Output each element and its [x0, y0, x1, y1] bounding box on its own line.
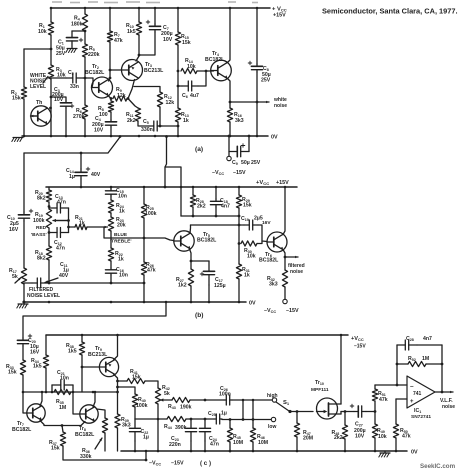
ground section c	[379, 453, 390, 457]
arrow R36 label	[95, 438, 102, 449]
junction	[138, 7, 141, 10]
resistor R18	[35, 246, 52, 262]
junction y400 b	[252, 399, 255, 402]
svg-text:15k: 15k	[243, 203, 252, 209]
wire -Vcc stub c	[145, 451, 147, 460]
svg-text:40V: 40V	[59, 273, 69, 279]
wire emitter to R8	[110, 99, 112, 102]
capacitor C21 bracket	[52, 385, 73, 392]
junction	[177, 135, 180, 138]
wire R17 bottom	[23, 284, 25, 302]
svg-text:R43: R43	[168, 404, 176, 410]
wire R31 top	[238, 244, 240, 265]
svg-text:BC182L: BC182L	[197, 238, 217, 244]
svg-text:5k: 5k	[12, 274, 18, 280]
wire R16 bottom	[229, 122, 231, 136]
resistor R4	[71, 14, 88, 31]
svg-text:IC1: IC1	[414, 408, 421, 414]
svg-text:47k: 47k	[379, 397, 388, 403]
junction rail 0V b	[110, 301, 113, 304]
wire R38 top	[81, 335, 83, 342]
wire R32 top	[284, 257, 286, 270]
junction C23 top	[190, 418, 193, 421]
junction rail 0V b	[208, 301, 211, 304]
node 0V section c	[411, 450, 418, 456]
svg-text:10M: 10M	[233, 440, 243, 446]
node emitters	[61, 424, 64, 427]
svg-text:noise: noise	[442, 404, 455, 410]
junction R29 y216	[238, 215, 241, 218]
node R9 right	[127, 97, 130, 100]
wire bus bottom	[177, 122, 179, 136]
svg-text:10n: 10n	[60, 376, 69, 382]
svg-text:125µ: 125µ	[214, 283, 226, 289]
transistor Tr8	[75, 405, 98, 438]
node filtered noise	[284, 256, 287, 259]
wire R2 bottom	[23, 99, 25, 136]
svg-text:+15V: +15V	[276, 180, 289, 186]
wire C3 jog	[51, 97, 66, 101]
junction C24 top	[204, 418, 207, 421]
node Tr5 emitter	[190, 260, 193, 263]
wire R4-R5 node	[84, 31, 86, 44]
svg-text:–15V: –15V	[354, 344, 366, 350]
wire R21 left	[69, 226, 76, 228]
wire R24-R23	[110, 213, 112, 217]
wire C19 to Tr6 base	[258, 225, 267, 242]
junction rail b	[80, 186, 83, 189]
wire R45 top	[229, 420, 231, 429]
junction Tr8 coll	[94, 391, 97, 394]
resistor R38	[66, 342, 85, 355]
wire C23 bottom	[190, 441, 192, 451]
wire -input	[375, 384, 407, 386]
wire R52 right	[426, 363, 442, 365]
resistor R48	[332, 425, 348, 441]
ground below C1	[66, 49, 77, 53]
resistor R5	[82, 44, 99, 58]
wire C14 bottom	[80, 179, 82, 187]
junction R47 top	[296, 410, 299, 413]
svg-text:LEVEL: LEVEL	[30, 84, 46, 90]
svg-text:16V: 16V	[30, 350, 40, 356]
svg-text:1k5: 1k5	[33, 364, 42, 370]
wire R30 right	[257, 241, 262, 244]
transistor Tr7	[12, 404, 45, 433]
junction rail bottom c	[344, 450, 347, 453]
wire 0V rail section b	[23, 301, 246, 303]
wire Tr10 drain	[340, 335, 342, 404]
wire Tr10 source	[340, 412, 342, 415]
svg-text:100: 100	[99, 112, 108, 118]
svg-text:10M: 10M	[258, 440, 268, 446]
junction rail c	[340, 334, 343, 337]
resistor R13	[175, 108, 188, 124]
wire y419	[135, 418, 167, 420]
wire C1 lead	[72, 30, 85, 32]
label (a)	[195, 146, 203, 153]
svg-text:220k: 220k	[88, 52, 100, 58]
junction -Vcc stub	[228, 135, 231, 138]
watermark SeekIC.com	[420, 463, 456, 470]
wire Tr6 emitter	[283, 250, 285, 258]
wire R37 top	[62, 426, 63, 433]
wire C11 to right	[46, 282, 143, 284]
capacitor C15	[105, 188, 127, 200]
node C5 bus	[177, 125, 180, 128]
resistor R14	[181, 58, 197, 74]
node source	[344, 410, 347, 413]
wire C7 top	[154, 8, 156, 24]
svg-text:BC182L: BC182L	[205, 57, 225, 63]
wire R29 top	[238, 187, 240, 195]
svg-text:10n: 10n	[118, 194, 127, 200]
wire C16 bottom	[110, 275, 112, 283]
wire R27 top	[190, 261, 192, 269]
wire Tr5 collector to C19	[191, 224, 245, 226]
junction	[50, 135, 53, 138]
resistor R32	[267, 270, 288, 288]
label high	[267, 393, 278, 399]
wire emitter to C17	[191, 260, 209, 262]
svg-text:–15V: –15V	[171, 461, 184, 467]
junction y392	[72, 391, 75, 394]
wire R1 bottom to node	[50, 35, 52, 65]
wire C18 bottom	[215, 207, 217, 216]
node R12 bottom	[159, 125, 162, 128]
junction rail bottom c	[204, 450, 207, 453]
junction rail b	[180, 186, 183, 189]
wire R38 bottom	[81, 355, 83, 392]
wire node to left trunk	[24, 48, 51, 50]
wire C14 top tap	[80, 153, 82, 169]
svg-text:25V: 25V	[251, 160, 261, 166]
resistor R25	[141, 204, 156, 218]
wire R49 top	[374, 412, 376, 425]
capacitor C16	[105, 267, 128, 279]
wire R1 top	[50, 8, 52, 22]
capacitor C26	[219, 386, 232, 405]
svg-text:1µ: 1µ	[69, 174, 75, 180]
junction rail bottom c	[190, 450, 193, 453]
capacitor C5	[141, 119, 162, 133]
junction	[177, 7, 180, 10]
resistor R31	[236, 264, 249, 279]
svg-text:190k: 190k	[180, 405, 192, 411]
wire R50 bottom	[395, 438, 397, 451]
wire C17 bottom	[208, 285, 210, 302]
capacitor C17	[200, 261, 225, 289]
wire C3 bottom	[65, 108, 67, 136]
svg-text:SN72741: SN72741	[411, 414, 431, 420]
junction	[229, 7, 232, 10]
svg-text:10k: 10k	[378, 434, 387, 440]
resistor R40	[132, 394, 147, 409]
svg-text:C5: C5	[143, 119, 149, 125]
svg-text:100n: 100n	[219, 392, 231, 398]
node C6 left	[177, 85, 180, 88]
label filtered noise	[288, 263, 305, 275]
junction C19 left	[238, 224, 241, 227]
svg-text:(a): (a)	[195, 146, 203, 153]
svg-text:2k2: 2k2	[197, 204, 206, 210]
svg-text:47n: 47n	[210, 442, 219, 448]
junction rail bottom c	[157, 450, 160, 453]
node C26 left	[204, 399, 207, 402]
junction	[229, 135, 232, 138]
wire Tr9 collector down	[114, 374, 118, 381]
wire 0V rail section a	[22, 135, 268, 137]
capacitor C13	[49, 194, 69, 213]
resistor R24	[108, 200, 124, 215]
junction rail b	[238, 186, 241, 189]
node Tr3 base tap	[109, 69, 112, 72]
svg-text:(b): (b)	[195, 312, 203, 319]
resistor R21	[75, 215, 87, 230]
resistor R9	[113, 87, 127, 101]
junction rail c	[81, 334, 84, 337]
resistor R28	[190, 195, 205, 210]
pot wiper arrow R42	[160, 398, 172, 401]
capacitor C25	[208, 411, 227, 425]
junction y419 r46	[252, 418, 255, 421]
svg-text:15k: 15k	[51, 446, 60, 452]
junction rail b	[143, 186, 146, 189]
resistor R44	[164, 416, 187, 431]
junction R28 y216	[192, 215, 195, 218]
svg-text:12k: 12k	[166, 100, 175, 106]
wire R50 top	[395, 399, 397, 424]
wire Tr9 emitter up	[114, 335, 118, 360]
junction C18 y216	[215, 215, 218, 218]
svg-text:low: low	[268, 424, 276, 430]
wire R36 bottom	[104, 433, 106, 451]
junction R30 left	[238, 242, 241, 245]
node R1-R3	[50, 48, 53, 51]
wire R12 top	[134, 87, 160, 93]
svg-text:BC182L: BC182L	[75, 432, 95, 438]
junction rail bottom c	[296, 450, 299, 453]
resistor R30	[241, 241, 257, 260]
node white noise tap	[229, 101, 232, 104]
node C8-whitenoise cross	[256, 101, 259, 104]
svg-text:Tr10: Tr10	[315, 380, 324, 386]
resistor R23 treble pot	[108, 217, 125, 231]
svg-text:180k: 180k	[71, 22, 83, 28]
junction y392	[92, 391, 95, 394]
wire R51 top	[374, 385, 376, 389]
wire Tr7 collector	[40, 392, 42, 406]
junction y392	[22, 391, 25, 394]
svg-text:C19: C19	[241, 216, 249, 222]
wire C11 line	[24, 282, 32, 284]
svg-text:BC182L: BC182L	[85, 70, 105, 76]
svg-text:1k2: 1k2	[178, 283, 187, 289]
capacitor C22	[129, 419, 148, 441]
svg-text:20M: 20M	[303, 436, 313, 442]
junction Tr7 coll	[41, 391, 44, 394]
capacitor C10	[7, 209, 33, 233]
wire C18 top	[215, 187, 217, 199]
wire ground stub c	[384, 451, 386, 453]
wire R40 bottom	[134, 407, 136, 419]
wire C15 top	[110, 187, 112, 189]
svg-text:10V: 10V	[94, 128, 104, 134]
junction trunk gnd b	[23, 301, 26, 304]
wire R19 bottom	[48, 228, 50, 246]
label -Vcc -15V section c	[149, 461, 184, 467]
svg-text:10V: 10V	[54, 97, 64, 103]
resistor R47	[294, 423, 313, 442]
arrow VLF output	[442, 391, 453, 394]
junction y419 link	[242, 418, 245, 421]
wire R46 bottom	[252, 442, 254, 451]
svg-text:1k5: 1k5	[127, 29, 136, 35]
junction rail b	[110, 186, 113, 189]
pot wiper arrow R19	[53, 219, 69, 222]
transistor Tr3	[122, 60, 165, 81]
resistor R26	[141, 262, 155, 275]
wire R41 left	[118, 380, 128, 382]
wire R10 top	[138, 8, 140, 22]
svg-text:2k2: 2k2	[334, 435, 343, 441]
wire R28 top	[192, 187, 194, 195]
wire R41 to R42	[145, 381, 158, 388]
resistor R36	[80, 418, 108, 460]
node Tr2 collector	[109, 77, 112, 80]
wire C27 right	[366, 411, 375, 413]
resistor R35	[54, 389, 71, 411]
label blue treble	[110, 232, 131, 245]
wire b trunk mid	[23, 221, 25, 268]
resistor R41	[127, 369, 145, 384]
wire R48 top	[344, 412, 346, 426]
svg-text:+VCC: +VCC	[351, 336, 364, 342]
label VLF noise	[440, 398, 455, 410]
wire x68 vertical	[68, 208, 70, 233]
capacitor C11	[32, 262, 69, 288]
wire R49 bottom	[374, 438, 376, 451]
wire b trunk upper	[23, 153, 25, 212]
wire R45 bottom	[229, 442, 231, 451]
resistor R3 white-noise-level pot	[48, 65, 65, 79]
junction rail bottom c	[229, 450, 232, 453]
svg-text:25V: 25V	[261, 78, 271, 84]
pot wiper arrow R23	[87, 226, 108, 229]
label S1	[283, 400, 290, 406]
svg-text:0V: 0V	[271, 135, 278, 141]
wire R26 bottom	[143, 275, 145, 302]
transistor Tr5	[174, 231, 217, 251]
svg-text:3k3: 3k3	[269, 282, 278, 288]
wire C2 to Tr2 base	[83, 78, 93, 88]
node C6 right	[205, 70, 208, 73]
terminal S1 high	[272, 398, 276, 402]
wire Tr8 collector	[93, 392, 95, 407]
svg-text:0V: 0V	[249, 301, 256, 307]
svg-text:47k: 47k	[147, 268, 156, 274]
capacitor C24	[199, 419, 219, 448]
arrow filtered noise output	[285, 256, 298, 259]
capacitor C21	[52, 370, 73, 390]
wire R11 bottom	[138, 121, 149, 126]
svg-text:220n: 220n	[169, 442, 181, 448]
wire C4 bottom	[110, 127, 112, 136]
capacitor C12	[49, 228, 69, 252]
node Tr9 base tap	[81, 366, 84, 369]
svg-text:C2: C2	[68, 70, 74, 76]
junction rail 0V b	[143, 301, 146, 304]
wire y216	[181, 215, 239, 217]
wire y392	[23, 391, 118, 393]
wire C9 right up	[248, 136, 250, 152]
svg-text:100k: 100k	[33, 218, 45, 224]
transistor Tr6	[259, 232, 287, 264]
capacitor C4	[92, 116, 117, 134]
resistor R11	[126, 108, 141, 124]
arrow Th base	[31, 115, 38, 118]
junction fb right	[441, 363, 444, 366]
svg-text:high: high	[267, 393, 278, 399]
wire y400-y419 link	[242, 400, 244, 420]
wire S1 to gate	[290, 411, 313, 413]
wire R42 bottom	[157, 404, 159, 451]
node output	[441, 391, 444, 394]
junction rail b	[215, 186, 218, 189]
svg-text:BC213L: BC213L	[88, 352, 108, 358]
svg-text:15k: 15k	[182, 40, 191, 46]
resistor R42 pot	[155, 385, 169, 404]
arrow white noise output	[230, 101, 269, 104]
svg-text:15k: 15k	[8, 370, 17, 376]
svg-text:8k2: 8k2	[37, 256, 46, 262]
resistor R45	[227, 428, 243, 446]
svg-text:100k: 100k	[145, 211, 157, 217]
svg-text:15k: 15k	[12, 96, 21, 102]
junction link left	[164, 186, 167, 189]
svg-text:1k: 1k	[79, 221, 85, 227]
wire +Vcc rail section b	[46, 186, 297, 188]
wire C15-R24	[110, 196, 112, 200]
resistor R6	[73, 105, 88, 120]
svg-text:1k5: 1k5	[68, 349, 77, 355]
wire R9 to R11	[128, 99, 138, 109]
wire R43 right	[190, 399, 224, 401]
capacitor C8	[248, 61, 271, 83]
svg-text:Semiconductor, Santa Clara, CA: Semiconductor, Santa Clara, CA, 1977.	[322, 7, 458, 16]
wire feedback left	[396, 345, 398, 385]
wire C24 bottom	[204, 441, 206, 451]
svg-text:noise: noise	[290, 269, 303, 275]
svg-text:47n: 47n	[56, 246, 65, 252]
op-amp IC1 741	[407, 376, 435, 420]
wire R5 bottom	[84, 57, 86, 105]
wire R9 to Tr3 collector	[128, 80, 135, 99]
svg-text:BLUE: BLUE	[114, 232, 128, 238]
svg-text:R52: R52	[408, 356, 416, 362]
terminal S1 low	[271, 417, 275, 421]
wire C26 to high	[232, 399, 272, 401]
wire Tr3 base	[110, 69, 122, 71]
wire C25 to low	[222, 419, 271, 421]
wire b-to-c link	[23, 302, 166, 338]
junction C16 bottom	[110, 282, 113, 285]
resistor R22	[108, 248, 123, 263]
ground section a left	[12, 138, 23, 142]
svg-text:16V: 16V	[9, 227, 19, 233]
resistor R8	[98, 101, 114, 118]
wire Tr2 collector lead	[109, 78, 111, 81]
